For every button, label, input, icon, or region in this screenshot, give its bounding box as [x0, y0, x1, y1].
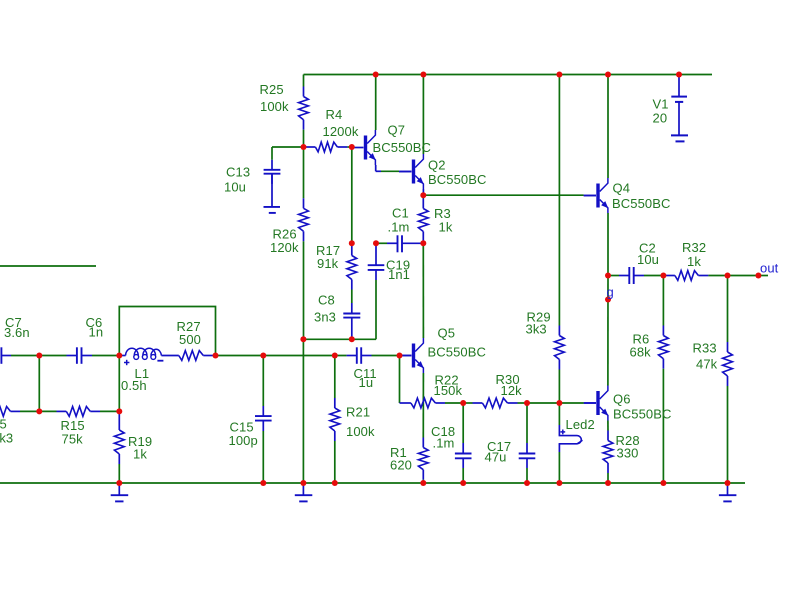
svg-text:1k: 1k: [133, 447, 147, 462]
svg-text:BC550BC: BC550BC: [428, 172, 487, 187]
svg-text:1n: 1n: [89, 325, 104, 340]
svg-text:120k: 120k: [270, 240, 299, 255]
svg-text:R32: R32: [682, 240, 706, 255]
svg-text:BC550BC: BC550BC: [373, 140, 432, 155]
svg-text:91k: 91k: [317, 256, 339, 271]
svg-text:Q2: Q2: [428, 158, 446, 173]
svg-text:C8: C8: [318, 293, 335, 308]
svg-text:out: out: [760, 261, 779, 276]
svg-text:3k3: 3k3: [526, 322, 547, 337]
svg-text:.1m: .1m: [433, 436, 455, 451]
svg-text:150k: 150k: [434, 383, 463, 398]
svg-text:BC550BC: BC550BC: [613, 407, 672, 422]
svg-text:V1: V1: [653, 96, 669, 111]
svg-text:3n3: 3n3: [314, 310, 336, 325]
svg-text:0.5h: 0.5h: [121, 378, 147, 393]
svg-text:1k: 1k: [439, 220, 453, 235]
svg-text:620: 620: [390, 458, 412, 473]
svg-text:10u: 10u: [637, 252, 659, 267]
svg-text:R4: R4: [326, 107, 343, 122]
svg-text:R21: R21: [346, 405, 370, 420]
svg-text:Q6: Q6: [613, 392, 631, 407]
svg-text:g: g: [607, 285, 614, 300]
svg-text:1k: 1k: [687, 254, 701, 269]
svg-text:330: 330: [617, 446, 639, 461]
svg-text:68k: 68k: [630, 345, 652, 360]
svg-text:75k: 75k: [62, 432, 84, 447]
svg-text:Q7: Q7: [388, 123, 406, 138]
svg-text:100k: 100k: [346, 424, 375, 439]
svg-text:C1: C1: [392, 206, 409, 221]
svg-text:.1m: .1m: [388, 220, 410, 235]
svg-text:C13: C13: [226, 165, 250, 180]
svg-text:12k: 12k: [501, 383, 523, 398]
svg-text:k3: k3: [0, 431, 13, 446]
svg-text:47u: 47u: [485, 450, 507, 465]
svg-text:Led2: Led2: [566, 417, 595, 432]
svg-text:R33: R33: [693, 341, 717, 356]
svg-text:100p: 100p: [229, 433, 258, 448]
svg-text:5: 5: [0, 417, 7, 432]
svg-text:1200k: 1200k: [323, 124, 359, 139]
svg-text:500: 500: [179, 332, 201, 347]
svg-text:Q4: Q4: [613, 181, 631, 196]
svg-text:20: 20: [653, 111, 668, 126]
svg-text:Q5: Q5: [438, 326, 456, 341]
svg-text:R25: R25: [260, 82, 284, 97]
svg-text:3.6n: 3.6n: [4, 325, 30, 340]
svg-text:47k: 47k: [696, 357, 718, 372]
svg-text:10u: 10u: [224, 180, 246, 195]
svg-text:1u: 1u: [359, 375, 374, 390]
svg-text:BC550BC: BC550BC: [612, 196, 671, 211]
svg-text:BC550BC: BC550BC: [428, 345, 487, 360]
svg-text:1n1: 1n1: [388, 267, 410, 282]
svg-text:100k: 100k: [260, 99, 289, 114]
